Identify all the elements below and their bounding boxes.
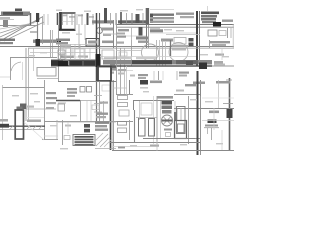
wire: horizontal y44.5 x58-96 faint (58, 44, 96, 46)
wall: long horizontal y142.5 x110-200 (110, 142, 200, 144)
duct drop: dark pair x87 (87, 13, 89, 25)
wall: horizontal y121.5 x58-116 (upper room bottom) (58, 121, 116, 123)
diffuser: filled black arrow right (213, 22, 221, 27)
label: text x214-226 y64 (214, 64, 225, 66)
meeting room dense annotation band y60-67 (51, 60, 96, 67)
wall: horizontal y81.5 x58-116 (58, 81, 116, 83)
fan circle B (169, 43, 188, 62)
duct riser right: heavy vertical x229 with ticks (229, 78, 231, 150)
wire: verticals x87 x91 y101-121 (86, 101, 88, 121)
wire: vertical pair x50-52 (50, 30, 52, 58)
duct lines bundle between circles (156, 40, 158, 66)
label: text x102-116 y40-46 (102, 41, 114, 44)
diffuser dark mark x112 y66.5 (112, 67, 116, 71)
label: text right column rows y53-58 (215, 54, 224, 56)
wall: horizontal inside frame (62, 21, 74, 23)
wall: long double horizontal y24-27 right half (116, 24, 234, 26)
label: tiny marks x104-114 y50-60 box (102, 50, 114, 59)
wall: horizontal y121.5 x44-133 (44, 121, 133, 123)
wall: horizontal y78.5 (37, 78, 58, 80)
wall: vertical x209.5 y40-48 (209, 40, 211, 48)
label: text rows left of riser x176-196 (176, 13, 194, 15)
equipment box x61 y104 (58, 104, 65, 111)
wall: vertical x58.5 y13-81 (58, 25, 60, 81)
wire: vertical x139.5 y101-120 (139, 101, 141, 120)
label: marks x101-109 y104-109 (92, 105, 99, 110)
wall: vertical x120,124 y48-94 (120, 48, 122, 94)
big white box with heavy border below meeting room (98, 67, 111, 82)
AHU: fan circle with X (162, 115, 173, 126)
fan circle A (142, 44, 159, 61)
wire: faint line y56.5 corridor top (100, 56, 196, 58)
sensor symbol on line (20, 104, 27, 110)
wall: horizontal y94.5 x116-133 (116, 94, 133, 96)
label: tiny row x0-10 y17 (0, 17, 10, 19)
label: text near x136 y36-40 (136, 37, 148, 40)
fine texture marks (aliasing noise) (12, 9, 229, 149)
wall: vertical x129 y120-140 (129, 120, 131, 140)
grid stubs: center top verticals (104, 8, 107, 23)
wall: vertical x57 y120-140 (56, 120, 58, 140)
AHU: boundary verticals (156, 96, 158, 144)
pump blob at left end (0, 124, 9, 128)
column: nested rects bottom-right-left (175, 121, 187, 139)
wall: vertical x44.5 y80-140 (44, 80, 46, 140)
duct dark segment (96, 54, 101, 67)
label: marks x130-136 y74-79 (130, 75, 135, 77)
wall: vertical x200.5 y80-96 (200, 80, 202, 96)
grid stubs x30-47 y13-25 (30, 13, 32, 25)
dense marks x95-110 y112-120 (96, 113, 108, 115)
label: text row mid-left y41 (33, 40, 56, 43)
wire: horizontal y98 x202-234 faint (202, 97, 234, 99)
label: small box x122 y52 (119, 52, 127, 56)
wire: faint circle-line y50.5 x116-142 (116, 50, 142, 52)
wire: vertical x42.5 (42, 16, 44, 44)
wire: vertical x157 y141-151 (156, 141, 158, 151)
wire: vertical x177 y70-80 (176, 71, 178, 80)
wire: diagonal faint bottom-left room (24, 122, 44, 140)
duct drop: dark vertical x170.5 y40-56 (170, 40, 172, 56)
wire: horizontal y36 x116-146 faint (116, 35, 146, 37)
AHU: faint white box x141 y103 (141, 103, 152, 115)
dark box pair x84-90 y124-132 (84, 124, 90, 128)
label: three rows right of lines x46-56 y92-110 (46, 92, 56, 94)
dark blob with label y80-84 x140-148 (140, 80, 148, 85)
wire: faint horizontal upper-left (0, 19, 14, 21)
wire: horizontal y120.5 x200-234 faint (202, 120, 234, 122)
label: text x161-173 y38-42 (161, 39, 173, 42)
equipment box: thick C-frame upper-left room (59, 12, 62, 31)
wall: vertical x10.5 (10, 58, 12, 81)
AHU: marks below fan (164, 129, 172, 131)
wire: vertical x154 y71-80 (153, 71, 155, 80)
wire: vertical marks x227 y28-38 (227, 28, 229, 38)
wall: long double horizontal y46-48 (0, 46, 234, 48)
label: text rows x96-110 y122-130 (95, 122, 109, 124)
diffuser circle small (97, 28, 103, 34)
wall: vertical pair x133-135 y110-142 (134, 110, 136, 142)
wall: vertical pair x146-148 (146, 8, 149, 24)
label: text row right y20 (222, 20, 233, 22)
wall: vertical x133.5 y100-141 (133, 100, 135, 110)
supply duct left with hatch (0, 125, 45, 127)
label: text marks below corridor x104-116 (104, 68, 116, 70)
thermostat line pair x26-28 left (25, 48, 27, 121)
wall: vertical x44.5 y120-140 (44, 120, 46, 140)
dark blob on right riser (227, 108, 233, 118)
wall: horizontal y90 x2-44 (2, 87, 44, 89)
label: text x176-184 y90 (176, 90, 184, 92)
heavy duct vertical x110-112 lower (110, 80, 112, 150)
wire: line y34.5 x166-200 (166, 34, 200, 36)
wall: heavy horizontal y100.5 x58-80 (56, 100, 80, 102)
label: text rows bottom-left of top area (0, 39, 15, 42)
equipment pedestal bottom-left (17, 107, 23, 111)
wall: top-left corridor underline (0, 15, 28, 17)
label: CORRIDOR text band (103, 60, 212, 65)
grid stubs: vertical line tops y13-25 (57, 13, 59, 25)
corridor wall y65.3-67 (100, 65, 212, 67)
label: small tag above corridor (15, 9, 22, 12)
label: three text rows x73-82 y89-97 (67, 88, 77, 90)
wire: vertical x163 y71-80 (162, 71, 164, 80)
wire: faint y70.5 x112-133 (112, 70, 133, 72)
wire: vertical x158.5 below corridor (158, 71, 160, 80)
label: left column small boxes x57-63 y50-60 (58, 50, 65, 54)
wall: horizontal y100.5 x133-174 equipment room top (133, 100, 174, 102)
label: text x119-123 y146-150 (118, 146, 125, 148)
wire: horizontal y52 x56-96 faint (30, 52, 96, 54)
label: text rows over circle B (172, 45, 188, 47)
wall: vertical x131 y40-66 (131, 40, 133, 66)
wire: vertical x214 y108-130 faint (213, 108, 215, 130)
wire: horizontal y146.5 x116-160 faint (112, 146, 150, 148)
wall: AHU bottom y138.5 x143-195 (143, 138, 195, 140)
wire: horizontal faint y117 x24-44 (26, 117, 44, 119)
wall: vertical x80.5 y100-121 (80, 100, 82, 121)
label: dark bit x110 y62 (110, 62, 115, 66)
equipment faint box x102 y85 (102, 85, 110, 91)
wire: horizontal y88 x113-127 (113, 87, 127, 89)
wall: vertical x126.5 y66-95 faint (126, 66, 128, 95)
wire: vertical x218.5 y80-108 ticks (218, 80, 220, 108)
wall: horizontal y94.5 x174-200 (174, 94, 200, 96)
duct main: heavy vertical pair x96-99 (96, 13, 98, 82)
wall: horizontal y103 x58-66 (58, 102, 66, 104)
wall: horizontal y138.5 x174-200 (174, 138, 200, 140)
wall: vertical x116.5 y48-95 faint (113, 20, 115, 48)
label: small boxes right x208-216 y30-36 (208, 30, 217, 36)
wire: faint vertical x22.5 y62-80 (22, 62, 24, 80)
wall: long horizontal y108.5 x174-234 (174, 108, 234, 110)
wall: vertical x2.5 y85-140 (2, 85, 4, 140)
AHU: right inner rect (177, 107, 186, 134)
label: CORRIDOR top-left (1, 12, 30, 16)
wire: horizontal y117.5 x136-157 (136, 117, 157, 119)
label: text x60-80 y40-45 (56, 39, 70, 42)
wire: horizontal faint y136 x44-58 (44, 135, 58, 137)
label: MEETING ROOM text (92, 20, 113, 23)
room below corridor: text x138-148 y74-79 (138, 74, 148, 76)
wire: faint horizontal y34 x104-116 (104, 33, 116, 35)
wire: vertical x222 y48-66 faint (221, 48, 223, 60)
schedule text block top-right x200-217 (201, 12, 219, 15)
wire: horizontal faint y9.5 x150-174 (150, 9, 174, 11)
duct riser: heavy vertical bar x37 top (36, 13, 39, 22)
wire: vertical x68 y122-134 faint (67, 122, 69, 134)
wire: right edge faint vertical (232, 24, 234, 48)
label: dark text block x207-217 y119.5 (208, 120, 217, 124)
label: boxes x95-105 y88-94 (80, 87, 85, 93)
label: text rows right-top of Q4 (193, 82, 205, 85)
label: text x100 y101.5 (100, 102, 108, 104)
wire: horizontal y109 x26-56 (26, 108, 56, 110)
wall: horizontal y57.5 left room (10, 57, 57, 59)
wall: bottom long horizontal y150.5 (112, 150, 234, 152)
label: text x150 y29 (150, 29, 163, 32)
wall: horizontal y25.5 left (0, 25, 38, 27)
label: text above AHU (157, 96, 173, 99)
heavy vertical duct x197-200 lower part (197, 71, 199, 155)
wire: verticals x60-94 y44-60 faint strokes (60, 44, 62, 60)
label: tiny marks x32-40 y30-36 (30, 31, 37, 33)
label: text x186-194 y62-66 (214, 61, 223, 64)
valve symbol small left (3, 20, 8, 27)
ramp diagonals x95-112 y132-148 (96, 134, 108, 146)
damper: black rect on riser (36, 39, 41, 47)
door swing arc (11, 62, 21, 71)
duct drop: dark blob x137 (136, 14, 140, 23)
table rectangle left room (37, 68, 56, 77)
AHU: label stack boxes center (162, 101, 173, 105)
dark blob end of corridor band (199, 63, 207, 70)
shaft small x174-181 y108-120 (176, 108, 178, 120)
label: marks x64-70 y135-140 (64, 136, 70, 140)
wall: horizontal y139.5 x42-58 (42, 139, 58, 141)
schedule text block top-center-right (150, 14, 174, 16)
label: small boxes x208-216 y30-36 second (219, 31, 226, 36)
label: small text above duct (27, 120, 41, 123)
wire: vertical x103.5 y101-121 (103, 101, 105, 121)
wall: vertical x62.5 y120-145 (62, 120, 64, 145)
wire: horizontal faint y77 x0-10 (0, 76, 10, 78)
label: text row above band (60, 56, 74, 58)
label: tiny header dashes over stubs (62, 15, 67, 17)
wall: vertical x129.5 y80-94 (129, 80, 131, 94)
label: text x210-218 y110-114 (209, 111, 219, 114)
diffuser dark blobs x188 (189, 38, 194, 42)
coil cabinets: two open rects bottom-center (139, 119, 146, 137)
label: marks x150-158 y144-148 (150, 145, 159, 147)
label: faint text row y57-59.5 (104, 57, 132, 59)
label: text rows x117-130 y29-46 (118, 29, 129, 31)
leader lines: diagonal fan lower-left of top area (0, 17, 42, 41)
vertical duct rect bottom-left (15, 110, 23, 139)
equipment box x174 y37.5 (174, 38, 186, 45)
label: small boxes x118-126 y121-133 (118, 122, 127, 126)
wire: horizontal y33 x150-196 faint (150, 32, 196, 34)
label: text x182-192 y74-79 (179, 72, 189, 74)
label: left column boxes x118-128 y95-118 (118, 96, 128, 100)
equipment box with label x86-99 y38-46 (86, 39, 99, 47)
wire: faint tick x207.5 y6-11 (207, 6, 209, 11)
wire: vertical x222 y130-150 faint (221, 130, 223, 150)
label: text x185-196 y84-88 (185, 84, 196, 86)
label: text row right x210-230 y41-45 (210, 41, 230, 43)
return grille: hatched box (73, 135, 95, 146)
duct drop: vertical x141 y27-36 (139, 27, 143, 36)
duct main riser: heavy vertical x196-199 (196, 11, 198, 66)
wire: horizontal y127.7 x204-219 with drops (204, 127, 219, 129)
equipment small boxes upper meeting room (63, 48, 72, 56)
